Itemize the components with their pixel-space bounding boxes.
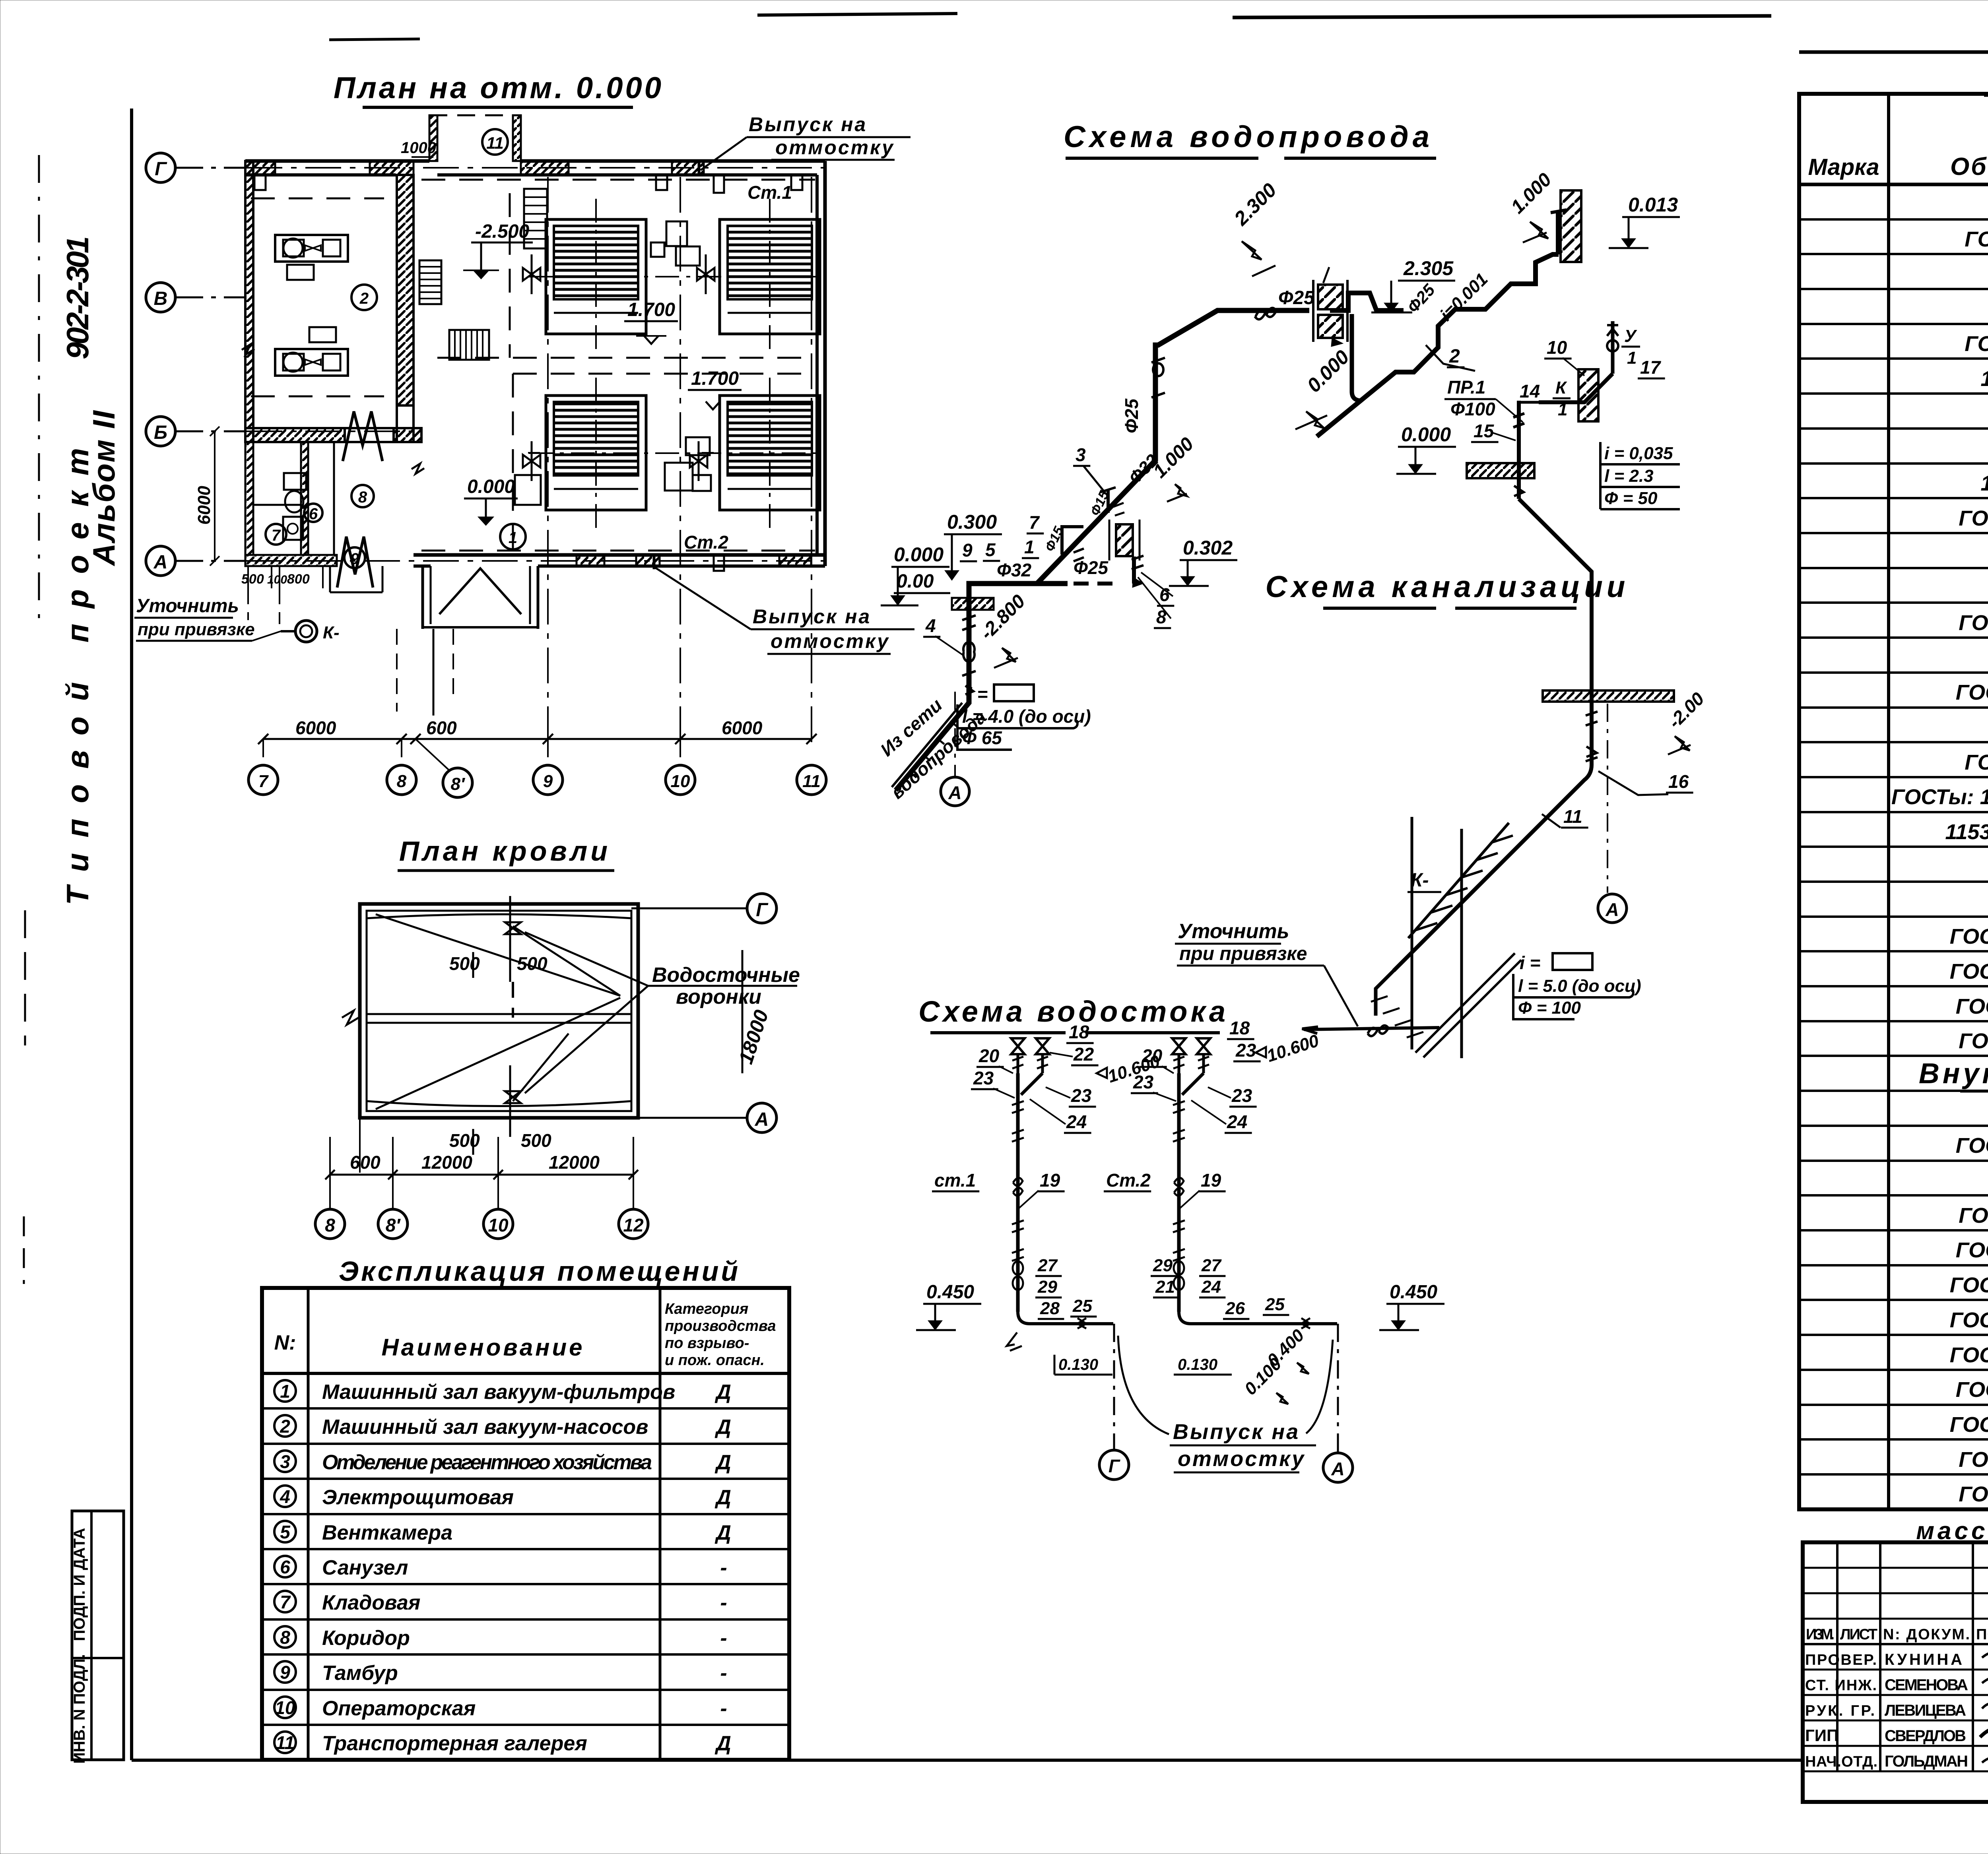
svg-text:Машинный зал вакуум-фильтров: Машинный зал вакуум-фильтров	[322, 1381, 675, 1404]
svg-text:А: А	[153, 552, 168, 573]
svg-text:12000: 12000	[549, 1152, 600, 1173]
svg-text:1.700: 1.700	[691, 368, 739, 389]
svg-text:воронки: воронки	[676, 985, 761, 1008]
svg-text:У: У	[1624, 326, 1637, 346]
svg-text:902-2-301: 902-2-301	[60, 236, 95, 359]
svg-text:План кровли: План кровли	[399, 836, 611, 867]
svg-text:Уточнить: Уточнить	[1178, 920, 1289, 943]
drain funnels ст.1	[1011, 1038, 1049, 1312]
svg-text:500: 500	[449, 953, 480, 974]
water riser fittings	[962, 358, 1165, 694]
svg-text:11: 11	[276, 1732, 295, 1753]
svg-text:8: 8	[358, 489, 367, 506]
svg-text:К: К	[1555, 378, 1567, 398]
water scheme item2 branch	[1317, 190, 1581, 436]
svg-text:N:: N:	[274, 1331, 296, 1354]
svg-text:600: 600	[350, 1152, 381, 1173]
svg-text:ПОДП.: ПОДП.	[1976, 1626, 1988, 1643]
sewer scheme title	[1266, 570, 1629, 608]
svg-text:ГОСТ 6942.8-69: ГОСТ 6942.8-69	[1956, 995, 1988, 1018]
svg-text:1000: 1000	[401, 139, 436, 157]
svg-text:0.000: 0.000	[1401, 423, 1451, 446]
svg-text:СЕМЕНОВА: СЕМЕНОВА	[1885, 1676, 1968, 1694]
svg-text:11: 11	[802, 772, 821, 791]
drain labels riser1 bottom	[916, 1256, 1112, 1375]
room number circles	[266, 285, 526, 568]
svg-text:24: 24	[1201, 1277, 1221, 1297]
machine center axis lines	[529, 199, 820, 529]
svg-text:К-: К-	[1411, 870, 1429, 891]
svg-text:5: 5	[985, 539, 996, 560]
specification table grid	[1799, 94, 1988, 1509]
svg-text:Операторская: Операторская	[322, 1697, 476, 1720]
svg-text:ГОСТ 17379-72: ГОСТ 17379-72	[1959, 1448, 1988, 1472]
svg-text:7: 7	[280, 1592, 291, 1612]
svg-text:ГОСТ 5525-61: ГОСТ 5525-61	[1965, 332, 1988, 356]
svg-text:10: 10	[671, 772, 690, 791]
svg-text:Транспортерная галерея: Транспортерная галерея	[322, 1732, 587, 1755]
sheet frame right line	[1799, 0, 1988, 1854]
svg-text:-: -	[720, 1697, 727, 1720]
svg-text:при привязке: при привязке	[1179, 943, 1307, 964]
svg-text:Коридор: Коридор	[322, 1627, 410, 1650]
svg-text:18: 18	[1229, 1018, 1250, 1038]
svg-text:1: 1	[1627, 348, 1637, 368]
water scheme stub item 6/8	[1109, 520, 1143, 584]
svg-text:1: 1	[509, 529, 517, 547]
svg-text:4: 4	[925, 615, 936, 636]
svg-text:6000: 6000	[722, 718, 763, 738]
svg-text:ГОСТ 6942.17-69: ГОСТ 6942.17-69	[1950, 1308, 1988, 1332]
roof drains funnels	[505, 896, 521, 1137]
svg-text:600: 600	[426, 718, 457, 738]
svg-text:по взрыво-: по взрыво-	[665, 1335, 749, 1352]
bottom axis circles	[248, 739, 826, 797]
sewer K- wall	[1371, 817, 1521, 1058]
svg-text:l = 5.0 (до оси): l = 5.0 (до оси)	[1518, 976, 1641, 996]
specification rows	[1891, 186, 1988, 1506]
svg-text:22: 22	[1073, 1044, 1094, 1065]
svg-text:Г: Г	[1109, 1456, 1120, 1476]
svg-text:Д: Д	[714, 1486, 731, 1509]
svg-text:ГОСТ 18698-73: ГОСТ 18698-73	[1959, 506, 1988, 530]
sewer i-table	[1513, 952, 1641, 1019]
svg-text:27: 27	[1201, 1256, 1222, 1275]
water scheme labels right	[1229, 169, 1680, 429]
svg-text:23: 23	[1071, 1085, 1092, 1106]
svg-text:1.700: 1.700	[627, 299, 675, 320]
dashed crane zones	[251, 180, 815, 551]
svg-text:ПРОВЕР.: ПРОВЕР.	[1805, 1652, 1877, 1668]
svg-text:11: 11	[1563, 806, 1582, 827]
svg-text:План на отм. 0.000: План на отм. 0.000	[334, 71, 664, 105]
svg-text:Машинный зал вакуум-насосов: Машинный зал вакуум-насосов	[322, 1416, 648, 1439]
svg-text:24: 24	[1227, 1111, 1247, 1132]
svg-text:производства: производства	[665, 1318, 776, 1334]
svg-text:9: 9	[543, 772, 553, 791]
svg-text:23: 23	[1235, 1040, 1256, 1061]
title block staff rows	[1805, 1626, 1988, 1770]
svg-text:8: 8	[325, 1215, 335, 1235]
svg-text:ГОСТ 17378-72: ГОСТ 17378-72	[1959, 611, 1988, 635]
left vertical dim 6000	[194, 427, 219, 566]
svg-text:ГОСТ 17375-72: ГОСТ 17375-72	[1959, 1482, 1988, 1506]
svg-text:8′: 8′	[450, 774, 465, 794]
drain funnels Ст.2	[1172, 1038, 1210, 1312]
svg-text:Водосточные: Водосточные	[652, 964, 800, 987]
svg-text:N: ДОКУМ.: N: ДОКУМ.	[1883, 1626, 1970, 1643]
svg-text:23: 23	[1231, 1085, 1252, 1106]
sanitary fixtures	[283, 473, 306, 540]
svg-text:0.013: 0.013	[1628, 194, 1678, 216]
svg-text:2: 2	[359, 290, 369, 307]
svg-text:ГОСТ 17379-72: ГОСТ 17379-72	[1959, 1029, 1988, 1053]
vypusk labels top	[699, 113, 911, 175]
svg-text:ГОСТ 6942.28-69: ГОСТ 6942.28-69	[1950, 1343, 1988, 1367]
svg-text:25: 25	[1072, 1296, 1092, 1316]
door zigzag tambour	[337, 537, 373, 588]
svg-text:ГОСТ 6942.10-69: ГОСТ 6942.10-69	[1950, 1273, 1988, 1297]
water scheme axis A circle	[941, 692, 969, 806]
svg-text:ПОДП. И ДАТА: ПОДП. И ДАТА	[71, 1528, 88, 1641]
svg-text:и пож. опасн.: и пож. опасн.	[665, 1352, 765, 1369]
sewer drop to -2.00	[1519, 499, 1708, 765]
explication header	[274, 1301, 776, 1369]
roof plan title	[398, 836, 614, 871]
svg-text:27: 27	[1037, 1256, 1058, 1275]
svg-text:21: 21	[1155, 1277, 1175, 1297]
svg-text:100: 100	[267, 573, 287, 586]
svg-text:Уточнить: Уточнить	[136, 595, 239, 617]
svg-text:Выпуск на: Выпуск на	[749, 113, 867, 136]
svg-text:9: 9	[280, 1662, 290, 1683]
svg-text:12000: 12000	[421, 1152, 472, 1173]
svg-text:Отделение реагентного хозяйств: Отделение реагентного хозяйства	[322, 1451, 652, 1474]
floor plan axis circles left	[146, 153, 247, 576]
drain riser labels ст.1	[932, 1170, 1065, 1208]
svg-text:Ф = 50: Ф = 50	[1604, 489, 1658, 508]
svg-text:20: 20	[1142, 1045, 1163, 1066]
valve symbols near machines	[523, 254, 714, 481]
svg-text:Наименование: Наименование	[381, 1334, 584, 1361]
svg-text:8: 8	[1156, 607, 1167, 627]
inv/podp box bottom left	[71, 1511, 124, 1764]
roof plan bottom dims	[315, 904, 648, 1239]
left margin vertical text: Альбом II	[86, 410, 121, 566]
floor plan title	[334, 71, 664, 107]
svg-text:6000: 6000	[194, 486, 214, 525]
svg-text:Ф25: Ф25	[1074, 557, 1109, 578]
explication title	[339, 1256, 740, 1287]
drain labels riser1 top	[971, 1022, 1163, 1133]
svg-text:8: 8	[280, 1627, 290, 1648]
roof plan dims 500	[449, 946, 551, 1155]
svg-text:18: 18	[1069, 1022, 1089, 1042]
svg-text:500: 500	[517, 953, 547, 974]
svg-text:ГОЛЬДМАН: ГОЛЬДМАН	[1885, 1753, 1968, 1770]
sheet frame left line	[132, 109, 1803, 1760]
water scheme item 7 bracket	[1062, 527, 1084, 561]
svg-text:Ф32: Ф32	[997, 560, 1031, 580]
wall break marks	[242, 344, 424, 474]
water scheme item 3 stub	[1101, 487, 1124, 516]
svg-text:Д: Д	[714, 1732, 731, 1755]
svg-text:ГОСТ 3262-75: ГОСТ 3262-75	[1965, 227, 1988, 251]
svg-text:Д: Д	[714, 1381, 731, 1404]
water scheme wall crossing	[1313, 267, 1347, 347]
svg-text:15 кч 18П2: 15 кч 18П2	[1980, 367, 1988, 391]
vypusk labels bottom	[654, 555, 950, 654]
svg-text:0.450: 0.450	[1390, 1282, 1437, 1303]
svg-text:8: 8	[397, 772, 407, 791]
specification header text	[1808, 149, 1988, 181]
left torn edge dash-dot	[24, 155, 39, 1284]
svg-text:2: 2	[1449, 346, 1460, 367]
svg-text:i = 0,035: i = 0,035	[1604, 444, 1673, 463]
water scheme labels left	[881, 398, 1237, 668]
sewer upper assembly	[1467, 321, 1618, 499]
drain riser labels Ст.2	[1104, 1170, 1226, 1208]
svg-text:19: 19	[1201, 1170, 1221, 1191]
svg-text:при привязке: при привязке	[138, 620, 255, 639]
svg-text:ИЗМ.: ИЗМ.	[1806, 1626, 1835, 1643]
svg-text:Схема водопровода: Схема водопровода	[1064, 120, 1433, 154]
svg-text:ГОСТ 6942.8-69: ГОСТ 6942.8-69	[1956, 1378, 1988, 1402]
water scheme i-table	[957, 684, 1091, 750]
drain labels riser2 top	[1131, 1018, 1322, 1133]
svg-text:А: А	[948, 782, 961, 803]
svg-text:отмостку: отмостку	[771, 630, 890, 652]
svg-text:Санузел: Санузел	[322, 1556, 408, 1579]
floor plan outer walls	[245, 161, 825, 566]
svg-text:9: 9	[962, 540, 973, 560]
svg-text:17: 17	[1640, 357, 1662, 378]
svg-text:500: 500	[449, 1130, 480, 1151]
svg-text:СВЕРДЛОВ: СВЕРДЛОВ	[1885, 1727, 1966, 1745]
ladder near gallery	[524, 189, 547, 248]
svg-text:6000: 6000	[295, 718, 336, 738]
svg-text:12: 12	[623, 1215, 644, 1235]
svg-text:Электрощитовая: Электрощитовая	[322, 1486, 514, 1509]
svg-text:0.450: 0.450	[926, 1282, 974, 1303]
svg-text:16: 16	[1668, 771, 1689, 792]
svg-text:19: 19	[1040, 1170, 1060, 1191]
svg-text:l = 2.3: l = 2.3	[1604, 466, 1654, 486]
pump groups room 2	[275, 235, 348, 376]
svg-text:Ф = 100: Ф = 100	[1518, 998, 1581, 1018]
svg-text:24: 24	[1066, 1111, 1087, 1132]
svg-text:А: А	[755, 1109, 769, 1130]
svg-text:Б: Б	[154, 422, 167, 443]
iz seti vodoprovoda label	[876, 694, 990, 803]
svg-text:ст.1: ст.1	[934, 1170, 976, 1191]
svg-text:Д: Д	[714, 1416, 731, 1439]
svg-text:29: 29	[1037, 1277, 1057, 1297]
svg-text:-: -	[720, 1627, 727, 1650]
svg-text:15: 15	[1474, 421, 1495, 441]
stairs	[419, 260, 489, 360]
svg-text:К-: К-	[323, 623, 340, 642]
svg-text:Выпуск на: Выпуск на	[1173, 1420, 1300, 1444]
svg-text:ЛИСТ: ЛИСТ	[1840, 1626, 1877, 1643]
svg-text:ГОСТ 6942.30-69: ГОСТ 6942.30-69	[1950, 1413, 1988, 1437]
svg-text:ПР.1: ПР.1	[1447, 377, 1485, 398]
svg-text:ИНВ. N ПОДЛ.: ИНВ. N ПОДЛ.	[71, 1654, 88, 1764]
svg-text:Ф100: Ф100	[1450, 399, 1495, 419]
water scheme main pipe	[892, 293, 1404, 790]
svg-text:i =: i =	[967, 684, 988, 704]
svg-text:А: А	[1605, 899, 1619, 920]
svg-text:Венткамера: Венткамера	[322, 1521, 452, 1544]
roof plan slope lines	[367, 914, 631, 1109]
svg-text:0.300: 0.300	[947, 511, 997, 533]
svg-text:7: 7	[1029, 512, 1040, 533]
svg-text:6: 6	[309, 505, 318, 523]
bottom protrusion gallery	[423, 566, 538, 629]
svg-text:Выпуск на: Выпуск на	[753, 605, 871, 628]
svg-text:Тамбур: Тамбур	[322, 1662, 398, 1685]
svg-text:1: 1	[280, 1381, 290, 1402]
svg-text:-: -	[720, 1556, 727, 1579]
svg-text:8′: 8′	[386, 1215, 401, 1235]
svg-text:-: -	[720, 1662, 727, 1685]
svg-text:ГОСТ 6942.17-69: ГОСТ 6942.17-69	[1950, 960, 1988, 983]
svg-text:ГОСТ 9156-68: ГОСТ 9156-68	[1965, 751, 1988, 774]
svg-text:14: 14	[1520, 381, 1540, 401]
svg-text:Внутренний водосток: Внутренний водосток	[1919, 1058, 1988, 1090]
drain riser pipe Ст.2	[1173, 1101, 1353, 1482]
svg-text:Д: Д	[714, 1451, 731, 1474]
drain riser pipe ст.1	[1012, 1101, 1129, 1480]
svg-text:3: 3	[280, 1451, 290, 1472]
svg-text:Кладовая: Кладовая	[322, 1591, 420, 1614]
svg-text:Ст.2: Ст.2	[1106, 1170, 1151, 1191]
level marks and labels inside plan	[463, 175, 792, 571]
mass note	[1916, 1517, 1988, 1545]
svg-text:7: 7	[258, 772, 269, 791]
roof plan outline	[360, 904, 638, 1118]
left margin vertical text: Типовой проект	[60, 448, 95, 905]
svg-text:В: В	[154, 288, 168, 309]
svg-text:10: 10	[488, 1215, 509, 1235]
svg-text:15 кч 18П2: 15 кч 18П2	[1980, 471, 1988, 495]
svg-text:11: 11	[486, 134, 504, 152]
svg-text:Ф25: Ф25	[1121, 398, 1142, 433]
svg-text:1153-76; 20275-74: 1153-76; 20275-74	[1945, 820, 1988, 844]
svg-text:23: 23	[1133, 1072, 1154, 1092]
left margin vertical text: 902-2-301	[60, 236, 95, 359]
svg-text:25: 25	[1265, 1295, 1285, 1314]
svg-text:26: 26	[1225, 1299, 1245, 1318]
sewer diagonal 11	[1394, 704, 1693, 971]
sewer outlet through wall	[1302, 971, 1439, 1036]
svg-text:Ф25: Ф25	[1278, 287, 1315, 308]
svg-text:500: 500	[521, 1130, 551, 1151]
svg-text:20: 20	[978, 1045, 1000, 1066]
small equipment boxes between machines	[515, 221, 711, 505]
svg-text:Схема канализации: Схема канализации	[1266, 570, 1629, 604]
svg-text:2: 2	[280, 1416, 290, 1437]
svg-text:0.130: 0.130	[1058, 1356, 1098, 1373]
svg-text:4: 4	[280, 1486, 290, 1507]
svg-text:Д: Д	[714, 1521, 731, 1544]
vypusk label drain	[1118, 1336, 1333, 1472]
svg-text:Марка: Марка	[1808, 154, 1879, 180]
svg-text:Обозначение: Обозначение	[1950, 153, 1988, 180]
svg-text:А: А	[1331, 1458, 1344, 1479]
machine row: vacuum filters	[528, 219, 820, 510]
svg-text:НАЧ.ОТД.: НАЧ.ОТД.	[1805, 1753, 1877, 1770]
svg-text:1: 1	[1024, 537, 1035, 557]
outlet risers below plan	[397, 629, 453, 716]
svg-text:отмостку: отмостку	[775, 136, 895, 159]
utochnit label plan	[134, 588, 340, 642]
svg-text:отмостку: отмостку	[1178, 1447, 1305, 1471]
roof plan axis marks	[631, 894, 777, 1133]
svg-text:0.000: 0.000	[467, 476, 515, 497]
svg-text:3: 3	[1076, 444, 1086, 465]
svg-text:800: 800	[287, 572, 310, 587]
specification title	[1984, 56, 1988, 95]
svg-text:Ст.2: Ст.2	[684, 532, 728, 553]
lower-left rooms partitions	[245, 442, 382, 592]
svg-text:0.130: 0.130	[1178, 1356, 1217, 1373]
svg-text:0.302: 0.302	[1183, 537, 1233, 559]
svg-text:29: 29	[1153, 1256, 1173, 1275]
sewer labels upper	[1396, 326, 1680, 509]
svg-text:-: -	[720, 1591, 727, 1614]
svg-text:9: 9	[350, 550, 359, 568]
svg-text:0.000: 0.000	[894, 543, 944, 566]
svg-text:ГОСТ 10704-63: ГОСТ 10704-63	[1959, 1204, 1988, 1228]
svg-text:Экспликация помещений: Экспликация помещений	[339, 1256, 740, 1287]
svg-text:0.00: 0.00	[897, 571, 934, 592]
svg-text:Категория: Категория	[665, 1301, 748, 1317]
svg-text:5: 5	[280, 1522, 291, 1542]
svg-text:6: 6	[280, 1557, 290, 1577]
svg-text:ГОСТ 6942.3-69: ГОСТ 6942.3-69	[1956, 681, 1988, 704]
svg-text:ГОСТы: 14360-69; 11807-66;: ГОСТы: 14360-69; 11807-66;	[1891, 785, 1988, 809]
svg-text:Г: Г	[155, 159, 167, 180]
svg-text:Г: Г	[756, 900, 769, 921]
svg-text:500: 500	[241, 572, 264, 587]
explication table grid	[262, 1288, 789, 1760]
bottom dim line	[258, 718, 817, 757]
floor plan axis lines	[247, 168, 825, 743]
svg-text:2.305: 2.305	[1403, 257, 1454, 279]
door zigzag at B wall	[343, 411, 382, 461]
svg-text:10: 10	[1547, 337, 1567, 358]
svg-text:7: 7	[272, 527, 281, 544]
drain scheme title	[918, 995, 1229, 1033]
small dims 500 100 800	[241, 566, 323, 588]
svg-text:i =: i =	[1520, 952, 1540, 973]
svg-text:10: 10	[275, 1697, 295, 1718]
title block	[1803, 1542, 1988, 1802]
roof drains label	[525, 932, 800, 1093]
sheet top torn edge lines	[329, 14, 1771, 40]
top protruding room 11	[401, 115, 521, 161]
svg-text:28: 28	[1040, 1299, 1060, 1318]
water scheme break symbols	[1132, 308, 1276, 588]
utochnit label sewer	[1175, 920, 1358, 1026]
explication rows	[274, 1380, 731, 1755]
svg-text:-2.500: -2.500	[475, 221, 529, 242]
svg-text:23: 23	[973, 1068, 994, 1088]
svg-text:ГОСТ 6942.5-69: ГОСТ 6942.5-69	[1956, 1238, 1988, 1262]
drain labels riser2 bottom	[1151, 1256, 1444, 1404]
svg-text:Ст.1: Ст.1	[747, 182, 792, 203]
